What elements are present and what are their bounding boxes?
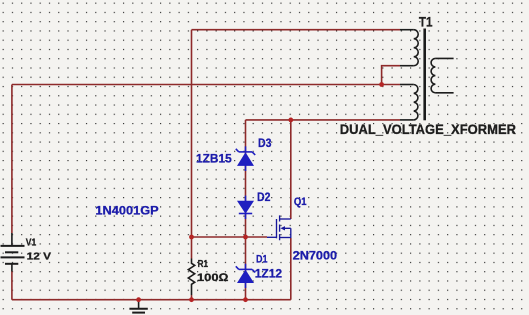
T1 secondary lead top [435,57,453,59]
svg-text:2N7000: 2N7000 [293,249,338,263]
zener diode D1 [236,266,255,282]
wire drain vertical x=290.8 [290,120,292,219]
Q1 channel segments [279,215,281,240]
svg-text:DUAL_VOLTAGE_XFORMER: DUAL_VOLTAGE_XFORMER [340,122,517,137]
MOSFET Q1 [267,215,291,240]
junction dot tap [379,82,384,87]
wire R1 top lead [191,237,193,259]
Q1 source stub [280,237,291,239]
junction dot chain node [243,235,248,240]
battery V1 plate short bottom [5,263,18,265]
wire gate node horizontal y=237 [192,236,268,238]
transformer T1 [400,30,454,120]
svg-text:12 V: 12 V [27,250,51,262]
T1 primary winding lower [414,85,418,120]
wire transformer bottom horizontal y=119.9 [246,119,401,121]
diode D2 [238,201,253,213]
wire source vertical x=290.8 [290,238,292,300]
wire top horizontal y=29.7 [192,29,401,31]
svg-text:Q1: Q1 [294,196,307,208]
svg-text:1Z12: 1Z12 [255,266,283,280]
diode lead stubs (navy) [245,146,247,288]
T1 primary lead tap-upper [400,65,414,67]
T1 secondary lead bottom [435,92,453,94]
svg-text:D3: D3 [258,136,272,150]
ground [129,300,147,313]
junction dot R1 top [189,235,194,240]
svg-text:D1: D1 [256,253,268,265]
wire R1 bottom lead [191,295,193,300]
battery V1 plate long bottom [1,256,25,258]
svg-text:V1: V1 [26,236,37,248]
T1 secondary winding [431,58,435,92]
battery V1 leads [11,233,13,272]
wire left rail top (V1 plus to mid rail) [11,85,13,234]
T1 core [423,29,426,121]
Q1 gate lead [267,236,277,238]
svg-text:D2: D2 [257,190,271,204]
Q1 body arrow [280,226,285,230]
wire bottom rail y=299.7 [12,299,291,301]
junction dot D1 bottom [243,297,248,302]
zener diode D3 [236,149,255,166]
svg-text:R1: R1 [198,258,209,270]
svg-text:100Ω: 100Ω [197,272,229,284]
T1 primary winding upper [414,30,419,66]
Q1 body line [285,228,291,238]
Q1 gate bar [276,219,278,238]
Q1 drain stub [280,218,291,220]
wire left rail bottom (V1 minus to bottom rail) [11,272,13,300]
wire mid horizontal rail y=84.5 [12,84,400,86]
junction dot drain/top [288,118,293,123]
battery V1 plate short [5,251,18,253]
junction dot R1 bottom [189,297,194,302]
T1 primary lead top [400,29,414,31]
svg-text:1ZB15: 1ZB15 [196,151,232,165]
wire vertical x=191.5 [191,30,193,237]
wire transformer tap [382,66,400,85]
battery V1 plate long top [1,245,25,247]
wire diode chain vertical x=245.5 [245,120,247,300]
T1 primary lead bottom [400,119,414,121]
junction dot ground [136,297,141,302]
svg-text:1N4001GP: 1N4001GP [95,204,158,218]
svg-text:T1: T1 [419,15,433,30]
T1 primary lead tap-lower [400,84,414,86]
resistor R1 [188,259,194,296]
